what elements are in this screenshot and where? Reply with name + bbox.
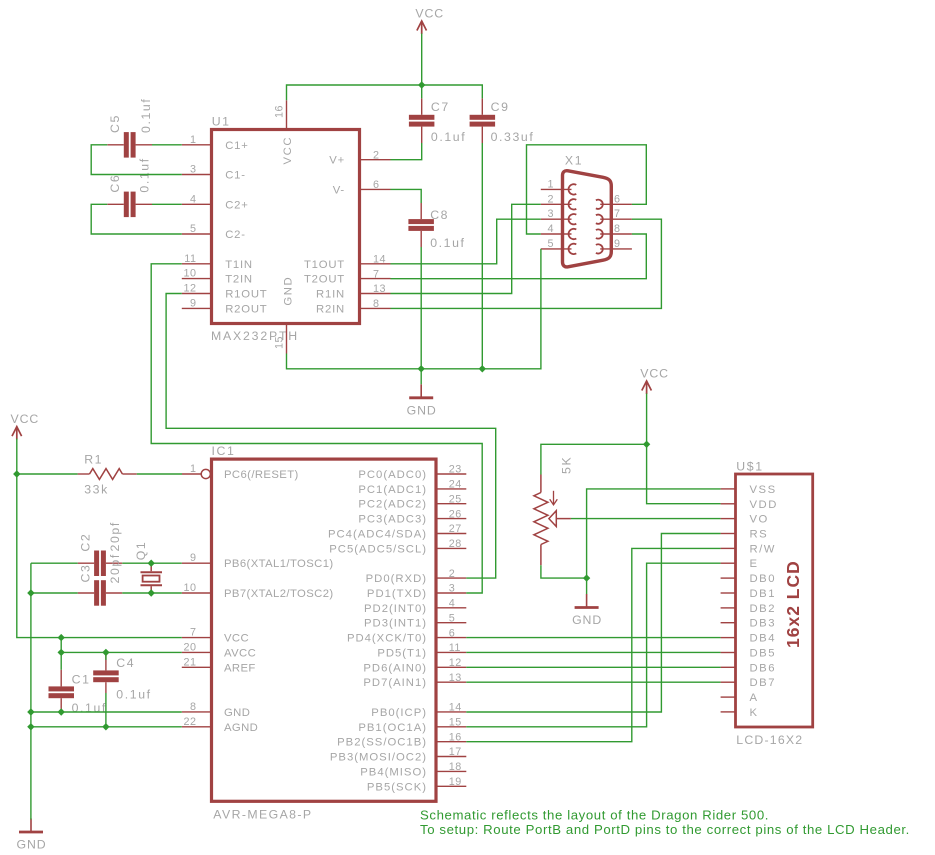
5K value label (rotated): [560, 456, 574, 474]
svg-text:0.1uf: 0.1uf: [72, 701, 107, 715]
svg-text:11: 11: [449, 642, 461, 654]
svg-text:VCC: VCC: [11, 412, 40, 426]
svg-text:PC1(ADC1): PC1(ADC1): [358, 484, 427, 496]
svg-text:R1OUT: R1OUT: [225, 289, 267, 301]
IC1 pin 26 (PC3(ADC3)) right stub+number+name: [358, 508, 466, 525]
U$1 LCD pin RS stub+name: [721, 529, 769, 541]
svg-text:VDD: VDD: [750, 499, 778, 511]
IC1 pin 16 (PB2(SS/OC1B)) right stub+number+name: [337, 731, 466, 748]
svg-text:C1-: C1-: [225, 170, 246, 182]
svg-text:DB0: DB0: [750, 573, 776, 585]
svg-text:C1: C1: [72, 673, 91, 687]
U$1 LCD pin A stub+name: [721, 692, 759, 704]
svg-text:0.1uf: 0.1uf: [116, 687, 151, 701]
U$1 LCD pin R/W stub+name: [721, 543, 776, 555]
IC1 pin 7 (VCC) left stub+number+name: [182, 627, 249, 645]
wire net PD6 to LCD DB6: [466, 666, 720, 668]
IC1 pin 10 (PB7(XTAL2/TOSC2)) left stub+number+name: [182, 582, 334, 600]
U1 pin 13 (R1IN) right stub+number+name: [316, 283, 390, 300]
svg-text:VCC: VCC: [224, 633, 249, 645]
capacitor C3: [78, 580, 123, 606]
svg-text:11: 11: [184, 253, 196, 265]
svg-text:PB1(OC1A): PB1(OC1A): [358, 722, 427, 734]
svg-text:0.1uf: 0.1uf: [139, 98, 153, 133]
wire net R1OUT to IC1 PD0(RXD): [166, 294, 496, 579]
U1 pin 10 (T2IN) left stub+number+name: [182, 268, 253, 286]
svg-text:PD0(RXD): PD0(RXD): [366, 573, 427, 585]
wire net PD5 to LCD DB5: [466, 651, 720, 653]
wire net VCC top: U1 pin16 to C7/C9 tops and VCC arrow: [287, 34, 483, 101]
svg-text:PC4(ADC4/SDA): PC4(ADC4/SDA): [328, 529, 427, 541]
wire C8 bottom to GND rail: [420, 247, 422, 369]
svg-text:AGND: AGND: [224, 722, 258, 734]
IC1 pin 4 (PD2(INT0)) right stub+number+name: [364, 598, 466, 615]
wire net VCC right: arrow to LCD VDD and pot top: [541, 394, 721, 504]
U1 pin 8 (R2IN) right stub+number+name: [316, 298, 390, 315]
svg-text:12: 12: [183, 283, 196, 295]
X1 pin 7 stub+socket+number: [596, 208, 632, 224]
svg-text:PD6(AIN0): PD6(AIN0): [363, 662, 427, 674]
svg-text:Q1: Q1: [134, 541, 148, 561]
junction dot at (105.9,726.8): [102, 723, 109, 730]
svg-text:PB2(SS/OC1B): PB2(SS/OC1B): [337, 737, 427, 749]
C8 name label: [430, 208, 449, 222]
svg-text:14: 14: [449, 702, 462, 714]
svg-text:16x2 LCD: 16x2 LCD: [783, 560, 803, 648]
svg-text:AVR-MEGA8-P: AVR-MEGA8-P: [213, 808, 312, 822]
svg-text:18: 18: [449, 761, 462, 773]
svg-text:4: 4: [547, 223, 554, 235]
svg-text:PC5(ADC5/SCL): PC5(ADC5/SCL): [329, 543, 427, 555]
wire net GND right: pot bottom, GND symbol, LCD VSS: [541, 489, 721, 578]
wire net AGND row22: [31, 726, 182, 728]
IC1 value label AVR-MEGA8-P: [213, 808, 312, 822]
svg-text:9: 9: [190, 297, 197, 309]
svg-text:33k: 33k: [84, 483, 109, 497]
svg-text:3: 3: [547, 208, 554, 220]
svg-text:26: 26: [449, 508, 462, 520]
svg-text:A: A: [750, 692, 759, 704]
svg-text:C2+: C2+: [225, 199, 248, 211]
IC1 pin 20 (AVCC) left stub+number+name: [182, 641, 256, 659]
GND symbol below C7/C8 (U1 area): [407, 384, 437, 417]
X1 pin 3 stub+socket+number: [541, 208, 577, 224]
svg-text:VCC: VCC: [640, 367, 669, 381]
svg-text:GND: GND: [16, 838, 46, 852]
wire net PB0 to LCD RS: [466, 534, 720, 713]
svg-text:15: 15: [274, 336, 286, 349]
wire net V+: C7 bottom to U1 pin2: [391, 143, 422, 160]
svg-text:10: 10: [183, 268, 196, 280]
junction dot at (105.9,652.4): [102, 649, 109, 656]
svg-text:2: 2: [373, 149, 380, 161]
svg-text:2: 2: [547, 193, 554, 205]
svg-text:DB6: DB6: [750, 662, 776, 674]
svg-text:VCC: VCC: [415, 7, 444, 21]
IC1 pin 12 (PD6(AIN0)) right stub+number+name: [363, 657, 466, 674]
C3 value 20pf (rotated): [108, 553, 122, 583]
wire net GND rail: U1 pin15 to X1 pin5: [287, 249, 587, 594]
svg-text:7: 7: [373, 268, 380, 280]
svg-text:C7: C7: [431, 100, 450, 114]
svg-text:DB2: DB2: [750, 603, 776, 615]
wire net VO: pot wiper to LCD VO: [571, 518, 721, 520]
U$1 LCD pin E stub+name: [721, 558, 759, 570]
svg-text:15: 15: [449, 717, 462, 729]
svg-text:2: 2: [449, 568, 456, 580]
U1 internal pin name GND (rotated): [283, 276, 295, 306]
U$1 LCD pin DB7 stub+name: [721, 677, 776, 689]
svg-text:PD4(XCK/T0): PD4(XCK/T0): [347, 633, 427, 645]
wire net R1IN to X1 pin2: [391, 204, 541, 293]
VCC symbol top (above C7): [415, 7, 444, 35]
svg-text:PB7(XTAL2/TOSC2): PB7(XTAL2/TOSC2): [224, 588, 334, 600]
svg-text:4: 4: [190, 193, 197, 205]
C9 value 0.33uf: [491, 130, 535, 144]
U1 pin 6 (V-) right stub+number+name: [333, 179, 391, 196]
svg-text:MAX232PTH: MAX232PTH: [211, 329, 299, 343]
junction dot at (421.2,368.8): [418, 365, 425, 372]
svg-text:DB3: DB3: [750, 618, 776, 630]
svg-text:PD2(INT0): PD2(INT0): [364, 603, 427, 615]
C2 name label (rotated): [79, 533, 93, 552]
U$1 LCD pin DB4 stub+name: [721, 633, 776, 645]
svg-text:6: 6: [449, 627, 456, 639]
U1 pin 16 (VCC) top stub: [274, 100, 287, 129]
IC1 pin 9 (PB6(XTAL1/TOSC1)) left stub+number+name: [182, 552, 334, 570]
svg-text:LCD-16X2: LCD-16X2: [736, 733, 803, 747]
junction dot at (151.2,563.2): [148, 560, 155, 567]
svg-text:X1: X1: [565, 154, 583, 168]
potentiometer 5K trimmer: [534, 475, 571, 566]
svg-text:1: 1: [190, 134, 197, 146]
wire net RESET: VCC junction through R1 to IC1 pin1: [17, 473, 182, 475]
junction dot at (61.2,637.6): [58, 634, 65, 641]
svg-text:PD1(TXD): PD1(TXD): [367, 588, 427, 600]
wire net T1OUT to X1 pin3: [391, 219, 541, 264]
note text line 2: [420, 822, 910, 837]
U$1 LCD pin DB6 stub+name: [721, 662, 776, 674]
svg-text:To setup: Route PortB and Port: To setup: Route PortB and PortD pins to …: [420, 822, 910, 837]
C4 value 0.1uf: [116, 687, 151, 701]
svg-text:3: 3: [449, 583, 456, 595]
junction dot at (646.6,444.3): [643, 441, 650, 448]
svg-text:PB0(ICP): PB0(ICP): [371, 707, 427, 719]
wire net PD7 to LCD DB7: [466, 681, 720, 683]
wire C4 bottom to AGND row: [105, 693, 107, 727]
U1 pin 15 (GND) bottom stub: [274, 324, 287, 354]
svg-text:VCC: VCC: [282, 136, 294, 165]
svg-text:9: 9: [614, 238, 621, 250]
C5 name label (rotated): [108, 114, 122, 133]
svg-text:27: 27: [449, 523, 462, 535]
IC1 pin 8 (GND) left stub+number+name: [182, 701, 251, 719]
capacitor C2: [78, 551, 123, 577]
C8 value 0.1uf: [430, 236, 465, 250]
wire net X1 pin4 to pin6 loopback: [527, 145, 647, 234]
svg-text:4: 4: [449, 598, 456, 610]
wire net GND row8: [31, 711, 182, 713]
IC1 pin 23 (PC0(ADC0)) right stub+number+name: [358, 464, 466, 481]
C9 name label: [491, 100, 510, 114]
LCD big label 16x2 LCD (rotated): [783, 560, 803, 648]
wire xtal-GND vertical to bottom-left GND: [30, 563, 32, 819]
IC U1 MAX232PTH box: [212, 130, 360, 324]
svg-text:PB3(MOSI/OC2): PB3(MOSI/OC2): [330, 752, 427, 764]
note text line 1: [420, 808, 769, 823]
U1 internal pin name VCC (rotated): [282, 136, 294, 165]
junction dot at (421.7,85): [418, 81, 425, 88]
X1 pin 6 stub+socket+number: [596, 193, 632, 209]
capacitor C6: [107, 192, 152, 218]
svg-text:PC3(ADC3): PC3(ADC3): [358, 514, 427, 526]
connector X1 DB9 body: [563, 171, 612, 267]
svg-text:K: K: [750, 707, 759, 719]
IC1 pin 14 (PB0(ICP)) right stub+number+name: [371, 702, 466, 719]
U$1 LCD pin K stub+name: [721, 707, 759, 719]
junction dot at (586.6,578.1): [583, 574, 590, 581]
svg-text:5: 5: [449, 612, 456, 624]
capacitor C4: [93, 655, 119, 693]
svg-text:5: 5: [190, 223, 197, 235]
wire net PD4 to LCD DB4: [466, 637, 720, 639]
U1 pin 4 (C2+) left stub+number+name: [182, 193, 249, 211]
GND symbol below pot: [572, 594, 602, 627]
X1 pin 1 stub+socket+number: [541, 178, 577, 194]
svg-text:GND: GND: [572, 613, 602, 627]
svg-text:U$1: U$1: [736, 460, 763, 474]
svg-text:9: 9: [190, 552, 197, 564]
GND symbol bottom-left: [16, 819, 46, 852]
svg-text:17: 17: [449, 746, 462, 758]
U1 pin 12 (R1OUT) left stub+number+name: [182, 283, 268, 301]
C1 value 0.1uf: [72, 701, 107, 715]
svg-text:23: 23: [449, 464, 462, 476]
VCC symbol left (reset pullup): [11, 412, 40, 440]
junction dot at (61.2,712): [58, 708, 65, 715]
X1 pin 8 stub+socket+number: [596, 223, 632, 239]
U$1 LCD pin VSS stub+name: [721, 484, 777, 496]
svg-text:3: 3: [190, 164, 197, 176]
U1 pin 11 (T1IN) left stub+number+name: [182, 253, 253, 271]
X1 pin 2 stub+socket+number: [541, 193, 577, 209]
IC1 pin 27 (PC4(ADC4/SDA)) right stub+number+name: [328, 523, 466, 540]
svg-text:DB1: DB1: [750, 588, 776, 600]
IC1 pin 2 (PD0(RXD)) right stub+number+name: [366, 568, 467, 585]
wire net C2+ / C6 loop to C2-: [91, 204, 182, 234]
svg-text:C5: C5: [108, 114, 122, 133]
wire net AVCC row and C1 top: [61, 638, 182, 670]
C3 name label (rotated): [79, 564, 93, 583]
svg-text:16: 16: [449, 731, 462, 743]
resistor R1 33k: [78, 469, 137, 480]
capacitor C9: [470, 98, 496, 143]
U$1 name label: [736, 460, 763, 474]
IC1 pin 13 (PD7(AIN1)) right stub+number+name: [363, 672, 466, 689]
wire net PB2 to LCD R/W: [466, 548, 720, 741]
capacitor C8: [408, 203, 434, 247]
svg-text:25: 25: [449, 493, 462, 505]
svg-text:PB4(MISO): PB4(MISO): [360, 766, 427, 778]
svg-text:U1: U1: [212, 115, 231, 129]
IC1 pin 11 (PD5(T1)) right stub+number+name: [377, 642, 466, 659]
svg-text:8: 8: [614, 223, 621, 235]
svg-text:16: 16: [274, 105, 286, 118]
svg-text:10: 10: [183, 582, 196, 594]
X1 name label: [565, 154, 583, 168]
capacitor C1: [49, 670, 75, 712]
X1 pin 5 stub+socket+number: [541, 238, 577, 254]
R1 name label: [84, 452, 103, 466]
wire C4 top to AVCC row: [105, 652, 107, 660]
capacitor C5: [107, 132, 152, 158]
Q1 name label (rotated): [134, 541, 148, 561]
U$1 LCD pin DB0 stub+name: [721, 573, 776, 585]
U1 pin 9 (R2OUT) left stub+number+name: [182, 297, 268, 315]
VCC symbol right (LCD/pot): [640, 367, 669, 395]
svg-text:VSS: VSS: [750, 484, 777, 496]
svg-text:8: 8: [190, 701, 197, 713]
svg-text:0.33uf: 0.33uf: [491, 130, 535, 144]
svg-text:T2IN: T2IN: [225, 274, 253, 286]
wire net XTAL2 row (PB7): [31, 592, 182, 594]
U1 pin 7 (T2OUT) right stub+number+name: [304, 268, 391, 285]
junction dot at (30.9,712): [27, 708, 34, 715]
svg-text:PC6(/RESET): PC6(/RESET): [224, 469, 299, 481]
C7 name label: [431, 100, 450, 114]
svg-text:V+: V+: [329, 155, 345, 167]
C5 value 0.1uf (rotated): [139, 98, 153, 133]
svg-text:22: 22: [183, 716, 196, 728]
svg-text:C4: C4: [116, 656, 135, 670]
junction dot at (30.9,726.8): [27, 723, 34, 730]
junction dot at (30.9,593.0): [27, 589, 34, 596]
IC1 pin 5 (PD3(INT1)) right stub+number+name: [364, 612, 466, 629]
svg-text:T2OUT: T2OUT: [304, 274, 345, 286]
svg-text:PC2(ADC2): PC2(ADC2): [358, 499, 427, 511]
junction dot at (16.8,474): [13, 470, 20, 477]
svg-text:20pf: 20pf: [108, 553, 122, 583]
wire net V-: U1 pin6 to C8 top: [391, 189, 422, 203]
U$1 LCD pin DB2 stub+name: [721, 603, 776, 615]
C4 name label: [116, 656, 135, 670]
IC1 pin 6 (PD4(XCK/T0)) right stub+number+name: [347, 627, 466, 644]
svg-text:19: 19: [449, 776, 462, 788]
U1 value label MAX232PTH: [211, 329, 299, 343]
svg-text:R2OUT: R2OUT: [225, 303, 267, 315]
svg-text:8: 8: [373, 298, 380, 310]
svg-text:7: 7: [614, 208, 621, 220]
svg-text:PB6(XTAL1/TOSC1): PB6(XTAL1/TOSC1): [224, 558, 334, 570]
junction dot at (151.2,593.0): [148, 589, 155, 596]
svg-text:R/W: R/W: [750, 543, 776, 555]
wire C9 bottom to GND rail: [481, 143, 483, 369]
svg-text:R2IN: R2IN: [316, 303, 345, 315]
svg-text:Schematic reflects the layout: Schematic reflects the layout of the Dra…: [420, 808, 769, 823]
LCD module U$1 box: [736, 474, 813, 727]
svg-text:6: 6: [373, 179, 380, 191]
svg-text:C1+: C1+: [225, 140, 248, 152]
wire net R2IN to X1 pin7: [391, 219, 662, 308]
svg-text:V-: V-: [333, 184, 345, 196]
svg-text:C9: C9: [491, 100, 510, 114]
svg-text:5: 5: [547, 238, 554, 250]
wire net T1IN to IC1 PD1(TXD): [151, 264, 482, 593]
svg-text:6: 6: [614, 193, 621, 205]
svg-text:13: 13: [449, 672, 462, 684]
svg-text:AVCC: AVCC: [224, 647, 256, 659]
crystal Q1: [141, 563, 163, 593]
IC1 pin 28 (PC5(ADC5/SCL)) right stub+number+name: [329, 538, 466, 555]
U1 pin 3 (C1-) left stub+number+name: [182, 164, 246, 182]
svg-text:0.1uf: 0.1uf: [430, 236, 465, 250]
svg-text:C6: C6: [108, 174, 122, 193]
wire net XTAL1 row (PB6): [31, 562, 182, 564]
svg-text:T1OUT: T1OUT: [304, 259, 345, 271]
svg-text:RS: RS: [750, 529, 769, 541]
svg-text:AREF: AREF: [224, 662, 256, 674]
svg-text:PD7(AIN1): PD7(AIN1): [363, 677, 427, 689]
wire net C1+ / C5 loop to C1-: [91, 145, 182, 175]
svg-text:C3: C3: [79, 564, 93, 583]
C7 value 0.1uf: [431, 130, 466, 144]
U1 pin 5 (C2-) left stub+number+name: [182, 223, 246, 241]
IC1 pin 17 (PB3(MOSI/OC2)) right stub+number+name: [330, 746, 466, 763]
IC1 pin 19 (PB5(SCK)) right stub+number+name: [367, 776, 466, 793]
IC1 pin 1 (PC6(/RESET)) left stub+number+name: [182, 463, 299, 481]
svg-text:E: E: [750, 558, 759, 570]
svg-text:PD3(INT1): PD3(INT1): [364, 618, 427, 630]
C1 name label: [72, 673, 91, 687]
svg-text:20: 20: [183, 641, 196, 653]
C6 value 0.1uf (rotated): [138, 157, 152, 192]
svg-text:GND: GND: [283, 276, 295, 306]
C2 value 20pf (rotated): [108, 521, 122, 551]
svg-text:7: 7: [190, 627, 197, 639]
U1 pin 2 (V+) right stub+number+name: [329, 149, 390, 166]
svg-text:1: 1: [190, 463, 197, 475]
svg-text:C2: C2: [79, 533, 93, 552]
svg-text:1: 1: [547, 178, 554, 190]
IC1 pin 15 (PB1(OC1A)) right stub+number+name: [358, 717, 466, 734]
svg-text:24: 24: [449, 479, 462, 491]
wire net T2OUT to X1 pin8: [391, 234, 647, 279]
svg-text:VO: VO: [750, 514, 769, 526]
svg-text:21: 21: [183, 656, 196, 668]
svg-text:DB5: DB5: [750, 648, 776, 660]
IC1 pin 18 (PB4(MISO)) right stub+number+name: [360, 761, 466, 778]
svg-text:IC1: IC1: [212, 444, 236, 458]
R1 value 33k: [84, 483, 109, 497]
IC1 pin 25 (PC2(ADC2)) right stub+number+name: [358, 493, 466, 510]
IC IC1 AVR-MEGA8-P box: [212, 459, 437, 801]
svg-text:GND: GND: [407, 403, 437, 417]
C6 name label (rotated): [108, 174, 122, 193]
svg-text:DB7: DB7: [750, 677, 776, 689]
U$1 LCD pin DB5 stub+name: [721, 648, 776, 660]
svg-text:T1IN: T1IN: [225, 259, 253, 271]
wire net PB1 to LCD E: [466, 563, 720, 727]
svg-text:C2-: C2-: [225, 229, 246, 241]
IC1 pin 24 (PC1(ADC1)) right stub+number+name: [358, 479, 466, 496]
U1 name label: [212, 115, 231, 129]
svg-text:PC0(ADC0): PC0(ADC0): [358, 469, 427, 481]
U$1 LCD pin VDD stub+name: [721, 499, 778, 511]
svg-text:20pf: 20pf: [108, 521, 122, 551]
U1 pin 1 (C1+) left stub+number+name: [182, 134, 249, 152]
svg-text:PB5(SCK): PB5(SCK): [367, 781, 427, 793]
capacitor C7: [409, 98, 435, 143]
